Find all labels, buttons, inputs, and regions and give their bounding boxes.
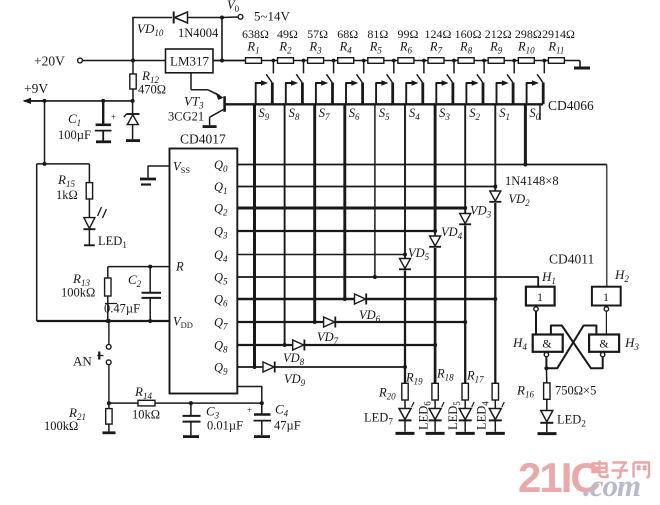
ground for C3	[183, 435, 199, 438]
switch S9 input stub from resistor junction	[272, 61, 274, 74]
svg-text:R8: R8	[459, 40, 473, 56]
wire row Q9 right segment to S4 column	[275, 366, 405, 368]
wire +20V rail from terminal to LM317	[83, 60, 166, 62]
wire row Q6 left segment	[237, 298, 354, 301]
svg-text:R15: R15	[57, 172, 75, 189]
wire column S8 to Q8	[284, 104, 286, 345]
wire row Q5 to H1	[237, 277, 538, 287]
svg-text:H3: H3	[624, 335, 639, 352]
svg-text:0.01µF: 0.01µF	[207, 419, 243, 433]
switch S1 blade	[507, 74, 513, 82]
switch S7 output drop	[331, 83, 334, 105]
svg-text:VD10: VD10	[137, 21, 164, 38]
svg-text:212Ω: 212Ω	[485, 27, 512, 41]
svg-text:99Ω: 99Ω	[397, 27, 418, 41]
svg-text:S3: S3	[439, 106, 450, 122]
switch S5 blade	[387, 74, 393, 82]
ground for R21	[103, 431, 116, 434]
switch S2 blade	[477, 74, 483, 82]
node +9V rail / C1 junction	[101, 99, 105, 103]
wire column S9 to Q9	[253, 104, 256, 367]
wire row Q1	[237, 186, 495, 188]
svg-text:S5: S5	[379, 106, 390, 122]
wire VD10 to Vo node	[188, 17, 222, 19]
svg-text:3CG21: 3CG21	[168, 110, 204, 124]
CD4066 right edge stub	[539, 104, 541, 120]
svg-text:&: &	[542, 337, 552, 351]
label LED6 rotated	[417, 401, 433, 430]
ground for LED7	[396, 432, 415, 435]
svg-text:CD4017: CD4017	[180, 132, 226, 147]
svg-text:VD2: VD2	[509, 192, 531, 208]
node S4/Q4	[403, 253, 407, 257]
svg-text:S7: S7	[319, 106, 330, 122]
node S1/Q1	[493, 185, 497, 189]
wire clock rail to C4	[191, 402, 262, 404]
resistor R5 81Ω	[368, 58, 384, 64]
wire row Q9 left segment	[237, 366, 263, 368]
svg-text:S1: S1	[499, 106, 510, 122]
wire row Q6 right segment to S1 column	[367, 298, 496, 301]
svg-text:R19: R19	[405, 371, 423, 387]
node A junction +20V rail / R12 / VD10 branch	[131, 59, 135, 63]
node left rail / R15 branch junction	[43, 162, 47, 166]
svg-text:47µF: 47µF	[274, 419, 301, 433]
svg-text:S4: S4	[409, 106, 420, 122]
svg-text:R2: R2	[278, 40, 292, 56]
wire LM317 output to R1	[213, 60, 246, 62]
ground for LED2	[538, 432, 557, 435]
wire row Q7 left segment	[237, 321, 323, 323]
ground for R11 end	[574, 67, 590, 70]
resistor R9 212Ω	[488, 58, 504, 64]
svg-text:+: +	[247, 405, 252, 415]
svg-text:638Ω: 638Ω	[242, 27, 269, 41]
arrow +9V feed	[23, 98, 32, 104]
switch S4 input stub from resistor junction	[423, 61, 425, 74]
node junction R4/R5	[362, 59, 366, 63]
IC U2 CD4017 box	[170, 149, 238, 394]
node VDD rail / AN branch junction	[107, 319, 111, 323]
svg-text:1N4148×8: 1N4148×8	[505, 174, 559, 188]
wire column S0 to Q0	[524, 104, 527, 164]
resistor R20 vertical	[402, 383, 408, 400]
wire AN branch upper	[108, 321, 110, 344]
node Q8 end on S3 column	[433, 343, 437, 347]
switch S8 output drop	[301, 83, 304, 105]
wire VDD rail	[108, 320, 170, 322]
resistor R13 100k vertical	[107, 267, 109, 278]
wire row Q4	[237, 254, 405, 256]
resistor R8 160Ω	[458, 58, 474, 64]
node reset net / C2 junction	[148, 265, 152, 269]
svg-text:LM317: LM317	[170, 54, 210, 69]
gate H1 inverter box	[526, 287, 555, 306]
switch S3 input stub from resistor junction	[453, 61, 455, 74]
wire Vo junction down to LM317 output rail	[221, 18, 223, 61]
svg-text:R14: R14	[134, 384, 152, 401]
LED LED5	[464, 400, 466, 409]
svg-text:+: +	[111, 112, 116, 122]
switch S9 control bracket and arrow	[256, 83, 263, 104]
LED2	[546, 399, 548, 410]
svg-text:V0: V0	[227, 0, 240, 14]
svg-text:124Ω: 124Ω	[425, 27, 452, 41]
svg-text:R18: R18	[436, 367, 454, 383]
LED LED7	[404, 400, 406, 409]
switch S8 blade	[296, 74, 302, 82]
node junction R5/R6	[392, 59, 396, 63]
ground for C1	[96, 140, 111, 143]
node junction R3/R4	[332, 59, 336, 63]
svg-text:0.47µF: 0.47µF	[104, 302, 140, 316]
resistor R16 750ohm x5	[545, 368, 547, 383]
switch S0 output drop	[542, 83, 545, 105]
svg-text:LED1: LED1	[98, 234, 127, 250]
wire +9V rail	[24, 100, 133, 102]
resistor R17 vertical	[492, 383, 498, 400]
svg-text:H2: H2	[614, 267, 629, 284]
capacitor C3 0.01uF	[190, 403, 192, 415]
CD4066 control/top line	[255, 103, 544, 105]
svg-text:R4: R4	[339, 40, 353, 56]
wire VT3 base to CD4066 control line	[226, 103, 255, 105]
svg-text:LED6: LED6	[417, 401, 433, 430]
ground for LED5	[456, 432, 475, 435]
svg-text:R5: R5	[369, 40, 383, 56]
wire H4 output cross to H3 input	[546, 326, 596, 369]
gate H1 output bubble	[534, 307, 538, 311]
svg-text:100µF: 100µF	[58, 128, 91, 142]
svg-text:68Ω: 68Ω	[337, 27, 358, 41]
LED LED6	[434, 400, 436, 409]
svg-text:R17: R17	[466, 369, 484, 385]
switch S0 input stub from resistor junction	[543, 61, 545, 74]
LED LED4	[494, 400, 496, 409]
label LED4 rotated	[475, 401, 491, 430]
svg-text:S9: S9	[259, 106, 270, 122]
svg-text:S0: S0	[529, 106, 540, 122]
svg-text:1: 1	[537, 290, 543, 304]
ground for C4	[254, 435, 270, 438]
diode VD6 1N4148 on Q6	[355, 294, 366, 304]
switch S5 output drop	[391, 83, 394, 105]
wire column S2 upper to Q2	[464, 104, 466, 208]
wire to Vo terminal	[222, 16, 238, 19]
resistor R21 100k vertical	[108, 403, 110, 408]
switch S8 control bracket and arrow	[286, 83, 293, 104]
svg-text:C4: C4	[275, 402, 289, 419]
node S5/Q5	[373, 275, 377, 279]
node S2/Q2	[463, 206, 467, 210]
svg-text:CD4011: CD4011	[549, 252, 594, 267]
switch S5 input stub from resistor junction	[393, 61, 395, 74]
svg-text:VT3: VT3	[184, 94, 204, 111]
node junction R8/R9	[482, 59, 486, 63]
switch S1 control bracket and arrow	[497, 83, 504, 104]
svg-text:1kΩ: 1kΩ	[56, 188, 78, 202]
diode VD3 1N4148	[464, 208, 466, 214]
svg-text:&: &	[599, 337, 609, 351]
svg-text:160Ω: 160Ω	[455, 27, 482, 41]
wire H2 output to H3	[605, 311, 607, 334]
switch S4 control bracket and arrow	[406, 83, 413, 104]
wire top left segment to VD10	[132, 17, 172, 19]
node Q9 end on S4 column	[403, 365, 407, 369]
svg-text:C1: C1	[68, 111, 81, 128]
node junction R1/R2	[272, 59, 276, 63]
switch S6 blade	[357, 74, 363, 82]
diode VD10 1N4004	[175, 12, 188, 23]
svg-text:S8: S8	[289, 106, 300, 122]
svg-text:R9: R9	[489, 40, 503, 56]
LED1 light arrows	[98, 207, 102, 216]
node clock rail / C3 junction	[189, 401, 193, 405]
wire row Q8 left segment	[237, 344, 292, 346]
svg-text:2914Ω: 2914Ω	[542, 27, 575, 41]
switch S4 blade	[417, 74, 423, 82]
node S6/Q6	[343, 297, 347, 301]
terminal +20V	[78, 58, 83, 63]
wire VD10 branch vertical	[132, 18, 134, 60]
node Q6 end on S1 column	[493, 297, 497, 301]
node +9V rail / zener junction	[131, 99, 135, 103]
node VDD rail / R13 junction	[106, 319, 110, 323]
svg-text:.com: .com	[583, 468, 640, 503]
svg-text:R11: R11	[547, 40, 564, 56]
svg-text:AN: AN	[73, 354, 92, 369]
svg-text:R10: R10	[517, 40, 535, 56]
wire row Q0 from CD4017 to H2 corner	[237, 164, 607, 166]
resistor R1 638Ω	[246, 58, 262, 64]
transistor VT3 3CG21	[190, 73, 192, 90]
node S9/Q9	[253, 365, 257, 369]
svg-text:R3: R3	[309, 40, 323, 56]
resistor R12 470ohm vertical	[132, 61, 134, 75]
diode VD8 1N4148 on Q8	[293, 340, 304, 350]
ground for VSS	[140, 178, 156, 181]
ground for zener	[126, 139, 140, 142]
wire left rail vertical lower	[36, 164, 38, 321]
switch S9 blade	[266, 74, 272, 82]
switch S6 control bracket and arrow	[346, 83, 353, 104]
switch S7 blade	[326, 74, 332, 82]
svg-text:LED4: LED4	[475, 401, 491, 430]
svg-text:LED7: LED7	[364, 411, 393, 427]
svg-text:R16: R16	[516, 383, 534, 400]
svg-text:R20: R20	[378, 386, 396, 402]
node +9V rail / left rail junction	[43, 99, 47, 103]
switch S1 output drop	[512, 83, 515, 105]
svg-text:S6: S6	[349, 106, 360, 122]
node Vo junction	[220, 16, 224, 20]
gate H2 inverter box	[592, 287, 621, 306]
svg-text:750Ω×5: 750Ω×5	[555, 384, 596, 398]
node S3/Q3	[433, 229, 437, 233]
svg-text:5~14V: 5~14V	[254, 9, 291, 24]
wire column S3 upper to Q3	[434, 104, 437, 231]
wire R11 to ground corner	[579, 61, 581, 67]
capacitor C4 47uF electrolytic	[261, 403, 263, 414]
capacitor C2 0.47uF	[149, 267, 151, 293]
gate H3 nand box	[589, 335, 619, 352]
svg-text:VD4: VD4	[441, 225, 463, 241]
svg-text:1N4004: 1N4004	[178, 26, 219, 40]
svg-text:VD7: VD7	[317, 330, 339, 346]
svg-text:CD4066: CD4066	[548, 98, 594, 113]
wire AN branch lower	[108, 365, 110, 404]
zener diode VD11 9V	[132, 101, 134, 114]
node Q7 end on S2 column	[463, 320, 467, 324]
wire column S4 upper to Q4	[404, 104, 406, 254]
resistor R7 124Ω	[428, 58, 444, 64]
node LM317 output / Vo drop junction	[220, 59, 224, 63]
node S0/Q0	[523, 163, 527, 167]
node junction R7/R8	[452, 59, 456, 63]
resistor R4 68Ω	[338, 58, 354, 64]
node clock net / R21 / R14 junction	[107, 401, 111, 405]
wire column S1 upper to Q1	[494, 104, 496, 186]
diode VD7 1N4148 on Q7	[324, 317, 335, 327]
resistor R10 298Ω	[518, 58, 534, 64]
wire row Q8 right segment to S3 column	[305, 344, 435, 346]
wire Q0 drop to H2 input	[606, 165, 608, 287]
node clock rail / C4 junction	[260, 401, 264, 405]
resistor R18 vertical	[462, 383, 468, 400]
wire resistor chain rail	[213, 60, 580, 62]
resistor R3 57Ω	[308, 58, 324, 64]
svg-text:LED5: LED5	[446, 401, 462, 430]
switch S2 output drop	[482, 83, 485, 105]
svg-text:1: 1	[603, 290, 609, 304]
node S8/Q8	[283, 343, 287, 347]
switch S0 blade	[537, 74, 543, 82]
label LED5 rotated	[446, 401, 462, 430]
svg-text:+9V: +9V	[24, 81, 48, 96]
svg-text:VD9: VD9	[284, 372, 306, 388]
resistor R6 99Ω	[398, 58, 414, 64]
switch S2 control bracket and arrow	[466, 83, 473, 104]
svg-text:R7: R7	[429, 40, 443, 56]
svg-text:VD3: VD3	[470, 204, 492, 220]
svg-text:R6: R6	[399, 40, 413, 56]
resistor R14 10k horizontal	[109, 402, 138, 404]
svg-text:S2: S2	[469, 106, 480, 122]
switch S6 input stub from resistor junction	[363, 61, 365, 74]
svg-text:470Ω: 470Ω	[138, 83, 166, 97]
wire H3 output cross to H4 input	[551, 326, 603, 369]
svg-text:81Ω: 81Ω	[367, 27, 388, 41]
switch S4 output drop	[421, 83, 424, 105]
wire H1 output to H4	[535, 311, 537, 334]
svg-text:C2: C2	[128, 272, 142, 289]
diode VD2 1N4148	[494, 187, 496, 192]
switch S3 control bracket and arrow	[436, 83, 443, 104]
gate H3 output bubble	[601, 352, 605, 356]
gate H4 nand box	[533, 335, 563, 352]
svg-text:49Ω: 49Ω	[277, 27, 298, 41]
node junction R2/R3	[302, 59, 306, 63]
svg-text:LED2: LED2	[557, 413, 586, 429]
svg-text:H4: H4	[512, 335, 527, 352]
wire CP pin from CD4017 to C4 node	[237, 387, 261, 404]
resistor R11 2914Ω	[548, 58, 564, 64]
wire column S7 to Q7	[313, 104, 316, 322]
svg-text:VD5: VD5	[408, 246, 430, 262]
node junction R9/R10	[512, 59, 516, 63]
svg-text:57Ω: 57Ω	[307, 27, 328, 41]
switch S3 blade	[447, 74, 453, 82]
diode VD5 1N4148	[404, 255, 406, 259]
switch S2 input stub from resistor junction	[483, 61, 485, 74]
svg-text:298Ω: 298Ω	[515, 27, 542, 41]
wire row Q2	[237, 207, 465, 210]
node H4 output / R16 junction	[544, 366, 548, 370]
switch S6 output drop	[361, 83, 364, 105]
node S7/Q7	[313, 320, 317, 324]
switch S5 control bracket and arrow	[376, 83, 383, 104]
wire row Q7 right segment to S2 column	[336, 321, 466, 323]
pushbutton AN	[106, 344, 111, 349]
resistor R19 vertical	[432, 383, 438, 400]
switch S7 control bracket and arrow	[316, 83, 323, 104]
diode VD9 1N4148 on Q9	[263, 362, 274, 372]
svg-text:100kΩ: 100kΩ	[61, 286, 95, 300]
svg-text:VD8: VD8	[283, 351, 305, 367]
resistor R2 49Ω	[278, 58, 294, 64]
LED1 indicator diode	[88, 199, 90, 218]
switch S9 output drop	[271, 83, 274, 105]
21IC logo dianziwang characters	[593, 461, 650, 479]
capacitor C1 100uF electrolytic	[102, 101, 104, 125]
wire left rail vertical upper	[44, 101, 46, 164]
wire column S5 to Q5	[374, 104, 376, 277]
ground for LED6	[426, 432, 445, 435]
switch S1 input stub from resistor junction	[513, 61, 515, 74]
wire reset net R pin to R13/C2	[108, 266, 170, 268]
diode VD4 1N4148	[434, 231, 436, 236]
svg-text:H1: H1	[541, 269, 556, 286]
ground for VT3	[203, 125, 217, 128]
regulator U1 LM317	[166, 49, 214, 73]
ground for LED4	[486, 432, 505, 435]
gate H2 output bubble	[604, 307, 608, 311]
svg-text:R1: R1	[246, 40, 259, 56]
resistor R15 1k vertical	[88, 164, 90, 183]
wire R15 branch horizontal	[37, 163, 90, 165]
switch S7 input stub from resistor junction	[333, 61, 335, 74]
terminal Vo output	[238, 14, 243, 19]
svg-text:R: R	[175, 260, 184, 274]
switch S0 control bracket and arrow	[527, 83, 534, 104]
wire column S6 to Q6	[343, 104, 346, 299]
wire row Q3	[237, 230, 435, 232]
svg-text:100kΩ: 100kΩ	[44, 419, 78, 433]
wire left rail to VDD rail corner	[37, 320, 109, 322]
switch S8 input stub from resistor junction	[303, 61, 305, 74]
switch S3 output drop	[451, 83, 454, 105]
gate H4 output bubble	[544, 352, 548, 356]
node junction R10/R11	[542, 59, 546, 63]
wire VSS to ground	[148, 166, 170, 178]
svg-text:+20V: +20V	[34, 54, 65, 69]
node VDD rail / C2 junction	[148, 319, 152, 323]
svg-text:10kΩ: 10kΩ	[132, 408, 160, 422]
node junction R6/R7	[422, 59, 426, 63]
